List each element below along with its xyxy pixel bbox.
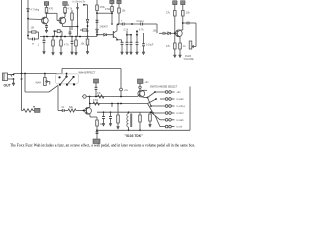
svg-text:470k: 470k [93, 99, 99, 102]
svg-text:to wah: to wah [177, 98, 185, 101]
svg-text:470k: 470k [105, 8, 111, 11]
svg-text:to vol(+): to vol(+) [177, 105, 186, 108]
svg-text:SWITCH MODE SELECT: SWITCH MODE SELECT [150, 86, 178, 89]
svg-text:4.7k: 4.7k [139, 29, 144, 32]
svg-text:WAH EFFECT: WAH EFFECT [79, 71, 96, 75]
svg-text:WAH: WAH [36, 82, 42, 85]
svg-text:"5103 TDK": "5103 TDK" [125, 134, 144, 138]
svg-text:0.01uF: 0.01uF [146, 44, 154, 47]
svg-text:to fuzz: to fuzz [177, 112, 185, 115]
svg-text:m: m [32, 43, 34, 46]
svg-text:to vol: to vol [177, 126, 183, 129]
svg-text:1M: 1M [31, 27, 34, 30]
svg-text:2N5457: 2N5457 [100, 26, 109, 29]
svg-text:470: 470 [49, 8, 54, 11]
svg-text:VOLUME: VOLUME [184, 58, 195, 61]
svg-text:OUT: OUT [4, 84, 12, 88]
svg-text:Output: Output [137, 20, 145, 23]
svg-text:4.7 Meg: 4.7 Meg [31, 9, 40, 12]
svg-text:to wah: to wah [177, 119, 185, 122]
svg-text:4.7k: 4.7k [64, 44, 69, 47]
svg-text:(+) 9v: (+) 9v [79, 1, 86, 4]
svg-text:2.2k: 2.2k [124, 29, 129, 32]
